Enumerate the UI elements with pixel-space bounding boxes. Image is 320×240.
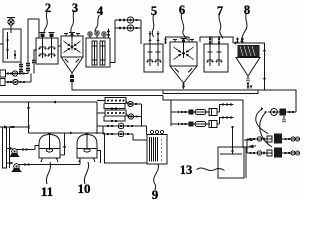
label 6 leader (181, 13, 187, 40)
tank 7 (204, 44, 228, 72)
main overflow line (0, 95, 163, 97)
label 5 leader (152, 14, 154, 37)
pump PF1 (126, 101, 142, 107)
feed pump PD2 (12, 158, 81, 172)
arrow on dissolver feed line (70, 132, 74, 135)
electrode pair EA in tank 5 (147, 31, 154, 66)
wire trough outlet to right cluster (258, 90, 296, 112)
label 13 leader (197, 168, 225, 171)
wire branch down to dissolvers (27, 102, 30, 133)
suction hose H1 (256, 107, 268, 133)
svg-text:2: 2 (45, 1, 51, 15)
svg-text:8: 8 (244, 3, 250, 17)
pump P2 row with tank feed box (0, 74, 31, 86)
valve stack VF2 above filter 8 (241, 38, 243, 44)
label 7 leader (219, 14, 223, 39)
svg-text:9: 9 (152, 187, 159, 200)
valve V2b on riser (26, 68, 30, 72)
agitator A in tank 2 (39, 33, 47, 59)
wire branch riser into tank T2 side (32, 50, 37, 74)
dosing row D2 (103, 131, 147, 140)
polishing row PR-A (171, 109, 217, 116)
electrolyzer 9 box (147, 135, 167, 165)
tank 13 (218, 147, 246, 178)
bypass valve VB1 (104, 104, 125, 110)
filter 8 top bar (233, 42, 262, 45)
label 9 leader (154, 164, 159, 190)
wire feed stub into T1 (0, 43, 3, 45)
valve V1b on T1 drop (19, 69, 23, 73)
electrolyzer terminals (150, 130, 163, 134)
tank 2 (conditioning tank) (36, 38, 58, 64)
svg-text:3: 3 (72, 1, 78, 15)
collection trough (163, 90, 258, 93)
electrode column E1 in tank 4 (92, 41, 97, 65)
manifold between skid rows (247, 139, 256, 153)
polishing row PR-B bypass (217, 116, 234, 124)
filter 8 outlet valve (247, 76, 250, 90)
clarifier 6 body (170, 42, 197, 83)
svg-text:13: 13 (180, 163, 193, 177)
clarifier 6 rake drive (181, 39, 187, 59)
gauge G1 on tank 4 (88, 32, 92, 38)
clarifier 3 rake drive (69, 33, 75, 51)
dotted dosing line (0, 125, 29, 129)
recirc pump PR2 (127, 25, 133, 31)
polishing box frame (171, 100, 243, 148)
wire tank5 overflow to clarifier6 (166, 37, 190, 44)
clarifier 6 top posts (173, 40, 194, 43)
drain valve under pump PT (283, 116, 286, 123)
svg-text:5: 5 (151, 4, 157, 18)
electrode column E2 in tank 4 (100, 41, 105, 65)
electrode pair ED in tank 7 (216, 36, 223, 66)
right manifold to electrolyzer (146, 126, 148, 135)
label 3 leader (71, 10, 75, 33)
wire filter8 side pipe (262, 43, 266, 90)
wire drop into tank 7 (211, 37, 213, 44)
arrow into trough from filter8 (250, 86, 253, 90)
valve stack VF1 above filter 8 (236, 38, 238, 44)
svg-text:6: 6 (179, 3, 185, 17)
gauge G2 on tank 4 (95, 31, 99, 38)
filter 8 media block (238, 46, 259, 57)
feed pump PD1 (10, 146, 40, 157)
valve V1a on T1 drop (19, 64, 23, 68)
label 11 leader (46, 162, 50, 184)
dosing row D1 (97, 123, 147, 129)
clarifier 3 internal arrows (64, 41, 81, 63)
tank 5 (144, 44, 163, 72)
main return line (0, 101, 97, 104)
dissolver 11 (39, 133, 60, 162)
gauge G3 on tank 4 (102, 32, 106, 38)
pump PF2 (126, 114, 142, 120)
acid manifold box (3, 127, 14, 168)
wire clarifier6 overflow to tank7/filter8 (200, 37, 233, 43)
tank T1 (leach tank) (3, 29, 21, 62)
label 2 leader (44, 11, 48, 33)
recirc pump PR1 (127, 17, 133, 23)
transfer pump PT (top right) (264, 109, 296, 116)
wire feed down to tank 13 (231, 126, 233, 152)
wire T1 outlet drop (20, 62, 22, 74)
valve V2a on riser (26, 63, 30, 67)
wire tank2 to clarifier3 (58, 45, 61, 47)
dosing skid row K2 (247, 148, 300, 158)
wire riser over to tank T2 top (28, 19, 39, 74)
wire right downcomer to electrolyzer (105, 133, 148, 163)
wire recirc downcomer to tank 5 (140, 20, 142, 44)
wire downcomer between dissolvers (60, 133, 66, 155)
pump P1 row with tank feed box (0, 70, 28, 77)
clarifier 6 internal arrows (174, 47, 194, 73)
suction hose H2 (260, 112, 272, 147)
wire clarifier6 underflow arrow to trough (182, 83, 185, 90)
wire loop between dosing rows (102, 126, 104, 134)
agitator motor M1 on tank T1 (7, 18, 15, 34)
tank 4 (electrowinning cell) (86, 38, 110, 67)
filter press F2 (97, 110, 126, 116)
dissolver feed line (29, 132, 105, 134)
label 10 leader (84, 162, 88, 184)
wire clarifier3 underflow to trough (72, 82, 163, 90)
filter press F1 (97, 98, 126, 104)
tank 13 side taps (244, 139, 254, 148)
svg-text:11: 11 (41, 184, 53, 199)
clarifier 3 top posts (64, 34, 80, 37)
valve dots on tank5 riser (164, 38, 166, 43)
bypass valve VB2 (104, 116, 125, 122)
clarifier 3 underflow valve (70, 73, 74, 82)
left manifold of filter bank (96, 102, 98, 134)
label 4 leader (95, 15, 100, 33)
wire big box left wall (163, 96, 171, 101)
electrode pair EB in tank 5 (155, 31, 162, 66)
polishing row PR-B (171, 121, 217, 128)
electrode pair EC in tank 7 (207, 36, 214, 66)
svg-text:4: 4 (97, 4, 104, 18)
clarifier 3 body (61, 36, 83, 73)
wire riser from tank4 to recirc rows (110, 20, 115, 63)
dissolver 10 (77, 133, 97, 162)
svg-text:7: 7 (217, 4, 223, 18)
agitator B in tank 2 (48, 33, 56, 59)
valve nozzle on tank4 top (107, 29, 110, 39)
wire rowAB manifold (141, 104, 143, 126)
label 8 leader (241, 13, 247, 42)
svg-text:10: 10 (78, 181, 91, 196)
dosing skid row K1 (247, 134, 300, 144)
recirc row R2 valve pair (115, 27, 141, 30)
recirc row R1 valve pair (115, 19, 141, 22)
polishing row PR-A bypass (217, 103, 234, 112)
dissolver 10 outlet (97, 151, 101, 164)
filter 8 cone (236, 58, 260, 77)
